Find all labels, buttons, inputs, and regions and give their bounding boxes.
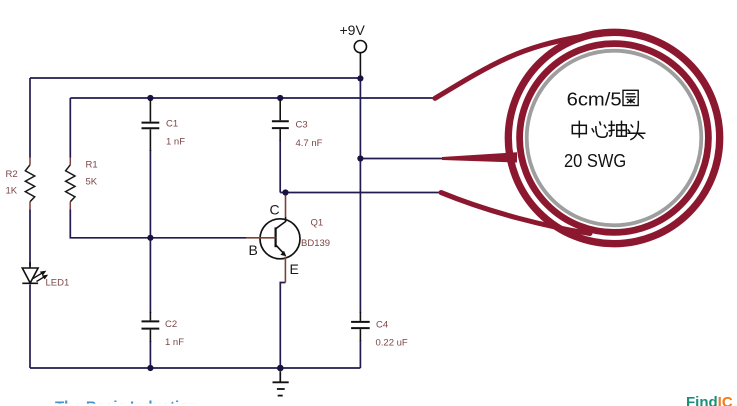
wire C3 bottom to collector line xyxy=(279,140,281,193)
svg-text:6cm/5: 6cm/5 xyxy=(567,88,622,109)
svg-text:0.22 uF: 0.22 uF xyxy=(376,338,408,349)
wire collector line y=192.5 to coil xyxy=(280,192,441,194)
ground xyxy=(273,371,289,395)
svg-text:C1: C1 xyxy=(166,119,178,130)
svg-text:1 nF: 1 nF xyxy=(166,137,185,148)
junction dot base node xyxy=(147,235,153,241)
wire left drop x=30 to R2 xyxy=(29,78,31,158)
svg-text:Q1: Q1 xyxy=(311,218,324,229)
inductor L1 bottom lead xyxy=(441,193,590,234)
junction dot emitter ground rail xyxy=(277,365,284,372)
svg-text:5K: 5K xyxy=(86,177,98,188)
svg-text:1K: 1K xyxy=(6,186,18,197)
svg-text:E: E xyxy=(290,261,299,277)
svg-text:C4: C4 xyxy=(376,320,388,331)
svg-text:C: C xyxy=(270,202,280,218)
svg-text:R2: R2 xyxy=(6,169,18,180)
resistor R2 xyxy=(6,158,35,210)
svg-text:20 SWG: 20 SWG xyxy=(564,150,626,171)
inductor L1 top lead xyxy=(435,36,583,98)
inductor L1 work coil outer ring xyxy=(508,32,719,243)
svg-text:1 nF: 1 nF xyxy=(165,337,184,348)
wire top-left rail y=78 xyxy=(30,77,360,79)
resistor R1 xyxy=(66,158,98,210)
wire center tap y=158.5 to coil xyxy=(360,158,442,160)
junction dot C3 top xyxy=(277,95,283,101)
svg-text:B: B xyxy=(249,242,258,258)
inductor L1 center tap lead xyxy=(442,152,517,162)
svg-text:4.7 nF: 4.7 nF xyxy=(296,138,323,149)
wire y=98 rail to coil xyxy=(70,97,434,99)
junction dot C1 top xyxy=(147,95,153,101)
capacitor C2 xyxy=(142,312,185,348)
label 中心抽头 xyxy=(572,121,645,140)
capacitor C3 xyxy=(272,99,323,149)
svg-text:C3: C3 xyxy=(296,120,308,131)
glyph 中 xyxy=(572,125,586,133)
svg-text:C2: C2 xyxy=(165,319,177,330)
junction dot collector node xyxy=(282,189,288,195)
junction dot center tap xyxy=(357,155,363,161)
capacitor C1 xyxy=(142,99,186,151)
svg-text:LED1: LED1 xyxy=(46,278,70,289)
inductor L1 gray core ring xyxy=(527,51,702,226)
wire emitter jog to ground rail xyxy=(280,283,285,369)
wire C4 to bottom rail corner xyxy=(359,340,361,368)
caption crop mask xyxy=(0,404,430,406)
power +9V terminal xyxy=(340,22,367,78)
svg-text:FindIC: FindIC xyxy=(686,394,733,406)
capacitor C4 xyxy=(351,312,408,349)
wire bottom rail y=368 xyxy=(30,367,360,369)
svg-text:+9V: +9V xyxy=(340,22,366,38)
LED LED1 xyxy=(22,262,69,289)
label 6cm/5圈 xyxy=(567,88,639,109)
wire R2 to LED xyxy=(29,210,31,267)
junction dot node A (+9V rail) xyxy=(357,75,363,81)
wire LED to bottom rail xyxy=(29,285,31,369)
wire C1 bottom to node xyxy=(149,150,151,238)
glyph 头 xyxy=(631,124,633,127)
wire +9V vertical x=360 xyxy=(359,78,361,313)
glyph 抽 xyxy=(609,121,612,136)
inductor L1 inner ring xyxy=(520,44,709,233)
wire R1 top drop xyxy=(69,98,71,158)
glyph 心 xyxy=(592,128,594,132)
svg-text:BD139: BD139 xyxy=(301,238,330,249)
transistor Q1 BD139 xyxy=(246,196,330,283)
wire C2 to bottom rail xyxy=(149,341,151,368)
wire node to C2 xyxy=(149,238,151,313)
svg-text:R1: R1 xyxy=(86,160,98,171)
wire R1 bottom to base line xyxy=(70,210,246,238)
junction dot C2 bottom rail xyxy=(147,365,153,371)
